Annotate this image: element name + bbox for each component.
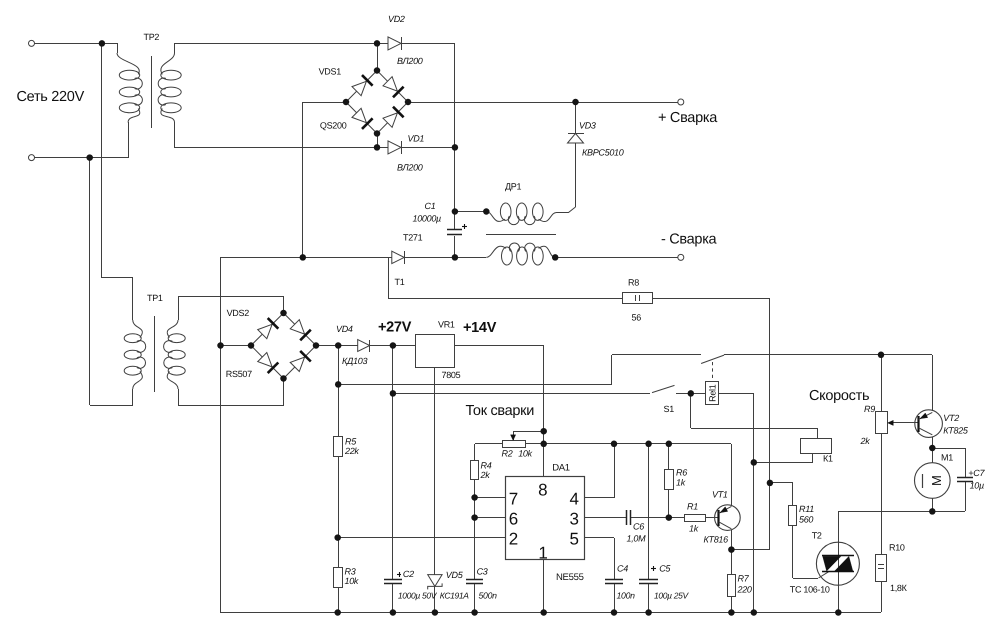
svg-text:500n: 500n bbox=[479, 590, 498, 600]
svg-text:Сеть 220V: Сеть 220V bbox=[17, 89, 85, 105]
svg-text:R9: R9 bbox=[864, 404, 875, 414]
svg-text:VD2: VD2 bbox=[388, 14, 405, 24]
svg-text:Скорость: Скорость bbox=[809, 388, 869, 404]
svg-text:1000µ 50V: 1000µ 50V bbox=[398, 590, 438, 600]
svg-text:+ Сварка: + Сварка bbox=[658, 110, 718, 126]
svg-text:QS200: QS200 bbox=[320, 120, 347, 130]
svg-text:220: 220 bbox=[737, 584, 752, 594]
svg-text:КТ825: КТ825 bbox=[943, 425, 969, 435]
svg-text:КС191А: КС191А bbox=[440, 590, 469, 600]
svg-text:С1: С1 bbox=[425, 201, 436, 211]
svg-text:+С7: +С7 bbox=[968, 468, 985, 478]
svg-text:VT1: VT1 bbox=[712, 489, 728, 499]
svg-text:R7: R7 bbox=[738, 573, 750, 583]
svg-text:М: М bbox=[929, 475, 944, 486]
svg-text:C2: C2 bbox=[403, 569, 414, 579]
svg-text:R11: R11 bbox=[799, 504, 814, 514]
svg-text:1: 1 bbox=[538, 544, 547, 563]
svg-text:R6: R6 bbox=[676, 468, 687, 478]
svg-text:RS507: RS507 bbox=[226, 369, 252, 379]
svg-text:VDS1: VDS1 bbox=[319, 67, 342, 77]
svg-text:6: 6 bbox=[509, 510, 518, 529]
svg-text:R2: R2 bbox=[502, 448, 513, 458]
svg-text:Т1: Т1 bbox=[395, 277, 405, 287]
svg-text:+27V: +27V bbox=[378, 320, 412, 336]
svg-text:ВЛ200: ВЛ200 bbox=[397, 56, 423, 66]
svg-text:VD1: VD1 bbox=[408, 134, 425, 144]
svg-text:ДР1: ДР1 bbox=[505, 181, 521, 191]
svg-text:+14V: +14V bbox=[463, 320, 497, 336]
svg-text:1,8К: 1,8К bbox=[890, 583, 908, 593]
svg-text:ВЛ200: ВЛ200 bbox=[397, 163, 423, 173]
svg-text:S1: S1 bbox=[664, 404, 675, 414]
svg-text:Т2: Т2 bbox=[812, 531, 822, 541]
svg-text:C5: C5 bbox=[659, 563, 671, 573]
svg-text:КД103: КД103 bbox=[342, 356, 367, 366]
svg-text:2k: 2k bbox=[860, 436, 871, 446]
svg-text:М1: М1 bbox=[941, 452, 953, 462]
svg-text:ТР1: ТР1 bbox=[147, 293, 163, 303]
svg-text:8: 8 bbox=[538, 481, 547, 500]
svg-text:5: 5 bbox=[570, 530, 579, 549]
svg-text:Т271: Т271 bbox=[403, 232, 423, 242]
svg-text:VD5: VD5 bbox=[446, 570, 464, 580]
svg-text:VDS2: VDS2 bbox=[227, 308, 250, 318]
svg-text:Rel1: Rel1 bbox=[708, 384, 718, 402]
svg-text:2: 2 bbox=[509, 530, 518, 549]
svg-text:3: 3 bbox=[570, 510, 579, 529]
svg-text:10k: 10k bbox=[345, 576, 359, 586]
svg-text:22k: 22k bbox=[344, 446, 359, 456]
svg-text:100µ 25V: 100µ 25V bbox=[654, 590, 689, 600]
svg-text:R1: R1 bbox=[687, 501, 698, 511]
svg-text:10µ: 10µ bbox=[970, 480, 984, 490]
svg-text:R8: R8 bbox=[628, 277, 639, 287]
svg-text:C6: C6 bbox=[633, 521, 644, 531]
svg-text:7: 7 bbox=[509, 489, 518, 508]
svg-text:КТ816: КТ816 bbox=[704, 534, 729, 544]
svg-text:7805: 7805 bbox=[442, 370, 461, 380]
svg-text:DA1: DA1 bbox=[552, 462, 570, 473]
svg-text:R4: R4 bbox=[481, 460, 492, 470]
svg-text:56: 56 bbox=[632, 312, 642, 322]
svg-text:К1: К1 bbox=[823, 453, 833, 463]
svg-text:ТР2: ТР2 bbox=[144, 32, 160, 42]
svg-text:VT2: VT2 bbox=[943, 413, 959, 423]
svg-text:R5: R5 bbox=[345, 436, 357, 446]
svg-text:Ток сварки: Ток сварки bbox=[466, 403, 535, 419]
svg-text:1,0М: 1,0М bbox=[627, 533, 647, 543]
svg-text:- Сварка: - Сварка bbox=[661, 232, 718, 248]
svg-text:ТС 106-10: ТС 106-10 bbox=[790, 585, 830, 595]
svg-text:C4: C4 bbox=[617, 563, 628, 573]
svg-text:10k: 10k bbox=[518, 448, 532, 458]
svg-text:VR1: VR1 bbox=[438, 320, 455, 330]
svg-text:2k: 2k bbox=[480, 470, 491, 480]
svg-text:100n: 100n bbox=[617, 590, 636, 600]
svg-text:1k: 1k bbox=[676, 478, 686, 488]
svg-text:КВРС5010: КВРС5010 bbox=[582, 148, 624, 158]
svg-text:VD3: VD3 bbox=[579, 121, 596, 131]
svg-text:R10: R10 bbox=[889, 543, 905, 553]
svg-text:560: 560 bbox=[799, 515, 813, 525]
svg-text:1k: 1k bbox=[689, 523, 699, 533]
svg-text:NE555: NE555 bbox=[556, 572, 584, 583]
svg-text:C3: C3 bbox=[477, 567, 488, 577]
svg-text:VD4: VD4 bbox=[336, 324, 353, 334]
svg-text:10000µ: 10000µ bbox=[413, 213, 442, 223]
svg-text:R3: R3 bbox=[345, 566, 356, 576]
svg-text:4: 4 bbox=[570, 489, 579, 508]
